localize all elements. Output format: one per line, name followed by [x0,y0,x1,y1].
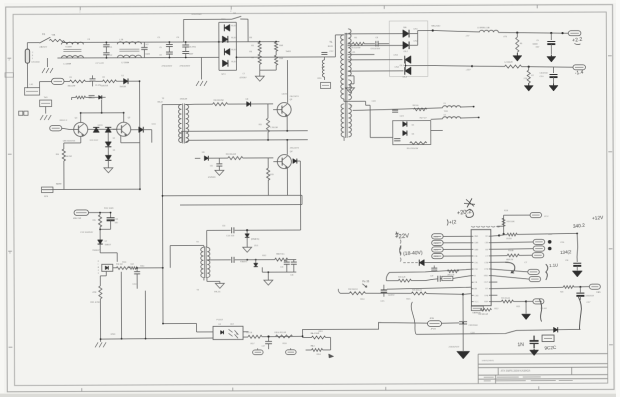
svg-text:470P/2KV: 470P/2KV [208,177,216,179]
svg-text:C13: C13 [115,219,118,221]
svg-text:THR1: THR1 [285,51,291,53]
svg-text:680R-1W: 680R-1W [506,259,513,261]
svg-text:D6: D6 [412,134,414,136]
svg-text:(ERA 91): (ERA 91) [251,238,259,241]
svg-text:2200U/10V: 2200U/10V [449,346,460,348]
svg-text:L2B: L2B [119,39,123,41]
svg-text:C16: C16 [290,275,293,277]
svg-text:RL207: RL207 [231,37,236,39]
svg-text:C20: C20 [565,260,568,262]
svg-text:R28 2.2: R28 2.2 [60,120,68,122]
svg-text:1N: 1N [517,342,524,348]
svg-text:2SC2073: 2SC2073 [290,96,300,98]
svg-text:D11 D12: D11 D12 [90,140,99,142]
svg-text:22-1/4: 22-1/4 [540,308,547,310]
svg-text:9.5MH: 9.5MH [65,46,72,48]
svg-text:X2: X2 [159,55,161,57]
svg-text:Pin 3B: Pin 3B [362,281,369,283]
svg-text:C14: C14 [222,225,225,227]
svg-text:RL207: RL207 [231,61,236,63]
svg-text:BASE: BASE [56,182,62,185]
svg-text:134(2: 134(2 [560,249,572,255]
svg-text:WA-5: WA-5 [311,344,315,347]
svg-text:1000U: 1000U [532,43,538,45]
svg-text:+(2: +(2 [449,219,457,226]
svg-text:SBL: SBL [403,27,406,29]
svg-text:470U/200V: 470U/200V [161,66,172,68]
svg-text:C13 10U/50V: C13 10U/50V [80,232,93,234]
svg-text:C17: C17 [262,346,265,348]
svg-text:VCC: VCC [544,216,549,218]
svg-text:HB17 B.C: HB17 B.C [276,254,285,256]
svg-text:D3: D3 [113,150,115,152]
svg-text:C10 470U: C10 470U [539,73,548,75]
svg-text:R2: R2 [103,77,105,79]
svg-text:438U .5W: 438U .5W [73,218,81,220]
svg-text:R19 100K: R19 100K [507,221,516,223]
svg-text:561.2W: 561.2W [66,156,72,158]
svg-text:C3B 13001/C945: C3B 13001/C945 [63,140,75,142]
svg-text:ATX SMPS 200W KA3842A: ATX SMPS 200W KA3842A [501,370,531,373]
svg-text:(18-40V): (18-40V) [403,250,423,257]
svg-text:R20: R20 [560,291,563,293]
svg-text:115V/230V: 115V/230V [191,14,202,16]
svg-text:CR-2: CR-2 [403,51,407,53]
svg-text:CND: CND [474,295,479,297]
svg-text:2A250V: 2A250V [39,46,47,49]
svg-text:817: 817 [231,324,234,326]
svg-text:R4: R4 [251,57,253,59]
svg-text:R21 22-1/4: R21 22-1/4 [501,297,509,299]
svg-text:JP2B: JP2B [431,328,437,330]
svg-text:R13: R13 [270,174,273,176]
svg-text:R8 100: R8 100 [413,105,419,107]
svg-text:L3 3R3M+1.0A: L3 3R3M+1.0A [477,26,490,29]
svg-text:R18 4.7K/1.2W: R18 4.7K/1.2W [275,332,287,334]
svg-text:R5 100/1W: R5 100/1W [351,47,360,49]
svg-text:4: 4 [98,270,99,272]
svg-text:-1.4: -1.4 [575,70,584,77]
svg-text:224M: 224M [144,54,150,56]
svg-text:472/2KV: 472/2KV [240,77,248,79]
svg-text:RL207: RL207 [231,25,236,27]
svg-text:VCC: VCC [474,301,479,303]
svg-text:EE-16: EE-16 [214,291,221,293]
svg-text:1ML1/2W: 1ML1/2W [68,85,76,87]
svg-text:C1: C1 [110,47,112,49]
svg-text:R23 2-2K: R23 2-2K [398,277,406,279]
svg-text:C.781.2W: C.781.2W [270,127,278,129]
svg-text:CNED: CNED [433,256,439,258]
svg-text:CR-4: CR-4 [403,77,407,79]
svg-text:R24 100 1/4: R24 100 1/4 [348,289,357,291]
svg-text:CR-3: CR-3 [399,65,403,67]
svg-text:R31 470K: R31 470K [90,302,100,304]
svg-text:R11: R11 [259,124,262,126]
svg-text:D5: D5 [412,125,414,127]
svg-text:D7: D7 [105,241,107,243]
svg-text:+12V: +12V [592,215,605,222]
svg-text:GND: GND [484,275,489,277]
svg-text:GND: GND [111,334,116,336]
svg-text:0.15: 0.15 [351,52,355,54]
svg-text:RL207: RL207 [231,49,236,51]
svg-text:C5: C5 [159,47,161,49]
svg-text:NTC: NTC [222,74,227,76]
svg-text:R9 4.7K/0.5W: R9 4.7K/0.5W [407,148,418,150]
svg-text:R17 1K: R17 1K [247,332,254,334]
svg-text:CNDD: CNDD [433,243,439,245]
svg-text:C19: C19 [430,276,433,278]
svg-text:CN1B: CN1B [433,236,439,238]
svg-text:150K/1W: 150K/1W [101,85,109,87]
svg-text:L4 100UH: L4 100UH [504,62,513,64]
svg-text:2200U/10V: 2200U/10V [585,295,594,297]
svg-text:+5V: +5V [465,35,469,37]
svg-text:SBL2040: SBL2040 [431,25,441,27]
svg-text:CN2D: CN2D [433,249,439,251]
svg-text:C7: C7 [242,73,244,75]
svg-text:R27 47: R27 47 [420,118,428,120]
svg-text:L6: L6 [444,114,446,116]
svg-text:EE-19: EE-19 [158,102,163,104]
svg-text:R12 820-1W: R12 820-1W [226,154,236,156]
svg-text:R10 820/1W: R10 820/1W [214,100,224,102]
svg-text:1.1U: 1.1U [549,262,558,268]
svg-text:U1: U1 [219,324,221,326]
svg-text:1N4148: 1N4148 [180,98,188,100]
svg-text:C6 470U: C6 470U [189,46,197,48]
svg-text:C2073: C2073 [282,94,287,96]
svg-text:9C2C: 9C2C [544,345,557,351]
svg-text:PC817: PC817 [216,319,223,321]
svg-text:R34B: R34B [508,250,514,252]
svg-text:L2 23MH: L2 23MH [121,62,129,64]
svg-text:470U/200V: 470U/200V [179,65,190,67]
svg-text:C14 103: C14 103 [226,235,235,237]
svg-text:FAN: FAN [596,291,601,294]
svg-text:R14: R14 [56,154,59,156]
svg-text:CX1 220U: CX1 220U [31,62,40,64]
svg-text:SHENZHEN: SHENZHEN [482,360,494,362]
svg-text:CNI: CNI [474,269,478,271]
svg-text:R3: R3 [251,45,253,47]
svg-text:1N4007: 1N4007 [105,244,111,246]
svg-text:D4 D5: D4 D5 [98,125,103,127]
svg-text:R1: R1 [70,77,72,79]
svg-text:E2: E2 [485,236,487,238]
svg-text:CN-100: CN-100 [506,238,512,240]
svg-text:L1 23MH: L1 23MH [63,63,71,65]
svg-text:102/1KV: 102/1KV [388,295,395,297]
svg-text:3: 3 [98,273,99,275]
svg-text:R6: R6 [520,43,522,45]
svg-text:R15 100K: R15 100K [104,208,114,210]
svg-text:16V: 16V [535,47,539,49]
svg-text:C15: C15 [280,267,283,269]
svg-text:+12V: +12V [465,69,471,71]
svg-text:C18 2200U: C18 2200U [469,325,479,327]
svg-text:2SC2073: 2SC2073 [290,148,300,150]
svg-text:KIA431: KIA431 [240,260,248,263]
svg-text:D2: D2 [113,138,115,140]
svg-text:C8 102/1KV: C8 102/1KV [370,48,380,50]
svg-text:T1R: T1R [444,111,449,113]
svg-text:C2: C2 [110,55,112,57]
svg-text:R25 600-1/4: R25 600-1/4 [412,290,421,292]
svg-text:1: 1 [32,58,33,60]
svg-text:C11: C11 [210,165,213,167]
svg-text:CY1 472: CY1 472 [95,63,104,65]
svg-text:1N4007: 1N4007 [92,250,100,252]
svg-text:R7: R7 [531,75,533,77]
svg-text:1N4148: 1N4148 [120,86,126,88]
svg-text:R22 681-1W: R22 681-1W [478,314,488,316]
svg-text:R15: R15 [93,220,96,222]
svg-text:C9: C9 [536,40,538,42]
svg-text:GAB: GAB [474,248,479,251]
svg-text:L5: L5 [444,103,446,105]
svg-text:R16 102: R16 102 [116,264,122,266]
svg-text:D1: D1 [122,75,124,77]
